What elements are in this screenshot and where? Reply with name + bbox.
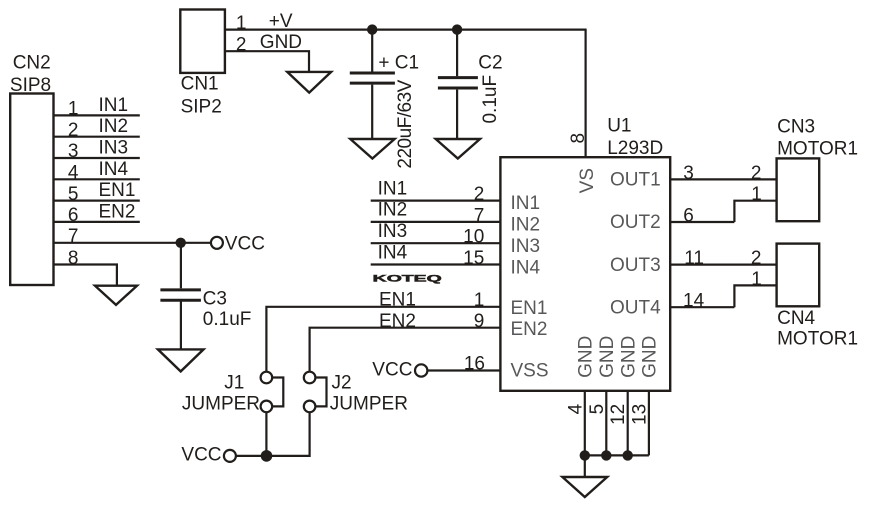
svg-text:4: 4 (565, 403, 586, 414)
svg-text:7: 7 (474, 205, 485, 226)
junction dot pin7/C3 (176, 238, 186, 248)
svg-text:IN4: IN4 (99, 159, 129, 180)
svg-text:2: 2 (751, 163, 762, 184)
svg-text:4: 4 (68, 163, 79, 184)
svg-text:6: 6 (683, 206, 694, 227)
jumper J1 pad bottom (261, 401, 273, 413)
wire CN3 pin1 (734, 201, 776, 222)
wire OUT1 (670, 178, 777, 180)
capacitor C1 (371, 30, 373, 72)
ground symbol GND (562, 477, 607, 497)
svg-text:IN2: IN2 (99, 116, 129, 137)
wire CN2 pin 7 to VCC (54, 242, 212, 244)
jumper J1 pad top (261, 372, 273, 384)
svg-text:SIP2: SIP2 (181, 96, 222, 117)
svg-text:1: 1 (751, 184, 762, 205)
capacitor C3 (180, 243, 182, 288)
jumper J1 bracket (272, 378, 283, 407)
svg-text:JUMPER: JUMPER (330, 393, 408, 414)
svg-text:VCC: VCC (225, 233, 265, 254)
svg-text:CN3: CN3 (777, 117, 815, 138)
svg-text:0.1uF: 0.1uF (203, 309, 252, 330)
svg-text:GND: GND (260, 32, 302, 53)
wire VS drop (584, 30, 586, 158)
wire OUT3 (670, 264, 777, 266)
svg-text:6: 6 (68, 205, 79, 226)
svg-text:1: 1 (474, 290, 485, 311)
svg-text:IN4: IN4 (378, 242, 408, 263)
wire VSS (427, 369, 500, 371)
svg-text:3: 3 (683, 163, 694, 184)
svg-text:12: 12 (608, 404, 629, 425)
junction dot J1/J2 (261, 450, 273, 462)
wire OUT2 (670, 221, 734, 223)
svg-text:2: 2 (68, 120, 79, 141)
wire CN2 pin 1 (54, 114, 140, 116)
svg-text:OUT2: OUT2 (610, 212, 661, 233)
wire CN2 pin 2 (54, 136, 140, 138)
svg-text:16: 16 (464, 354, 485, 375)
connector CN1 SIP2 body (180, 10, 225, 73)
wire +V rail (225, 29, 587, 31)
svg-text:CN1: CN1 (181, 73, 219, 94)
svg-text:SIP8: SIP8 (10, 75, 51, 96)
svg-text:IN1: IN1 (378, 178, 408, 199)
svg-text:MOTOR1: MOTOR1 (777, 329, 858, 350)
svg-text:220uF/63V: 220uF/63V (395, 79, 416, 168)
svg-text:8: 8 (568, 133, 589, 144)
svg-text:EN2: EN2 (99, 201, 136, 222)
svg-text:+V: +V (269, 11, 293, 32)
wire CN2 pin 4 (54, 178, 140, 180)
svg-text:MOTOR1: MOTOR1 (777, 138, 858, 159)
svg-text:EN1: EN1 (99, 180, 136, 201)
VCC pad circle VSS (415, 364, 427, 376)
svg-text:JUMPER: JUMPER (182, 393, 260, 414)
wire GND bus (585, 454, 649, 456)
svg-text:7: 7 (68, 226, 79, 247)
svg-text:IN1: IN1 (99, 95, 129, 116)
svg-text:5: 5 (68, 184, 79, 205)
wire CN2 pin 5 (54, 200, 140, 202)
svg-text:IN1: IN1 (511, 193, 541, 214)
wire CN2 pin 6 (54, 221, 140, 223)
svg-text:EN2: EN2 (379, 311, 416, 332)
svg-text:EN1: EN1 (379, 290, 416, 311)
wire GND pin 5 (605, 391, 607, 456)
svg-text:IN2: IN2 (378, 200, 408, 221)
svg-text:8: 8 (68, 248, 79, 269)
jumper J2 bracket (315, 378, 326, 407)
svg-text:OUT3: OUT3 (610, 255, 661, 276)
svg-text:15: 15 (463, 248, 484, 269)
wire GND pin 4 (584, 391, 586, 456)
svg-text:C2: C2 (478, 52, 502, 73)
wire CN2 pin 8 to ground (54, 265, 117, 286)
svg-text:1: 1 (751, 269, 762, 290)
wire J1 bottom to VCC (265, 412, 267, 456)
svg-text:J1: J1 (224, 373, 244, 394)
svg-text:2: 2 (474, 184, 485, 205)
wire IN4 (371, 263, 501, 265)
wire J2 bottom to junction (266, 412, 309, 456)
connector CN3 body (777, 158, 820, 221)
wire IN3 (371, 242, 501, 244)
svg-text:IN3: IN3 (511, 236, 541, 257)
svg-text:CN4: CN4 (777, 308, 815, 329)
IC U1 body (500, 157, 670, 391)
wire CN2 pin 3 (54, 157, 140, 159)
ground symbol C1 (350, 139, 394, 159)
svg-text:L293D: L293D (607, 138, 663, 159)
svg-text:VS: VS (577, 168, 598, 193)
svg-text:IN3: IN3 (378, 221, 408, 242)
svg-text:KOTEQ: KOTEQ (373, 273, 442, 284)
svg-text:IN2: IN2 (511, 215, 541, 236)
svg-text:IN4: IN4 (511, 258, 541, 279)
junction dot gnd 3 (623, 450, 633, 460)
svg-text:OUT4: OUT4 (610, 297, 661, 318)
junction dot C1 (367, 24, 377, 34)
svg-text:CN2: CN2 (13, 53, 51, 74)
svg-text:U1: U1 (607, 115, 631, 136)
VCC pad circle bottom (224, 450, 236, 462)
connector CN2 SIP8 body (10, 94, 53, 286)
svg-text:IN3: IN3 (99, 138, 129, 159)
junction dot gnd 2 (601, 450, 611, 460)
svg-text:J2: J2 (332, 373, 352, 394)
wire to ground (584, 455, 586, 477)
svg-text:VSS: VSS (511, 360, 549, 381)
svg-text:2: 2 (236, 34, 247, 55)
svg-text:C3: C3 (203, 288, 227, 309)
svg-text:OUT1: OUT1 (610, 170, 661, 191)
wire GND pin 12 (627, 391, 629, 456)
svg-text:0.1uF: 0.1uF (480, 75, 501, 124)
svg-text:GND: GND (618, 336, 639, 378)
svg-text:5: 5 (587, 404, 608, 415)
capacitor C2 (456, 30, 458, 77)
svg-text:GND: GND (575, 336, 596, 378)
ground symbol CN1 (287, 72, 331, 93)
wire CN1 pin 2 to ground (225, 51, 309, 72)
junction dot gnd 1 (580, 450, 590, 460)
svg-text:9: 9 (474, 311, 485, 332)
svg-text:GND: GND (639, 336, 660, 378)
connector CN4 body (777, 244, 820, 307)
svg-text:1: 1 (236, 13, 247, 34)
svg-text:EN2: EN2 (511, 319, 548, 340)
svg-text:11: 11 (684, 248, 704, 269)
svg-text:GND: GND (597, 336, 618, 378)
svg-text:+ C1: + C1 (378, 52, 419, 73)
wire IN1 (371, 200, 501, 202)
wire EN2 (310, 328, 501, 372)
svg-text:VCC: VCC (181, 445, 221, 466)
svg-text:10: 10 (463, 227, 484, 248)
VCC pad circle (211, 237, 223, 249)
ground symbol C2 (436, 139, 480, 159)
svg-text:3: 3 (68, 141, 79, 162)
svg-text:1: 1 (68, 99, 79, 120)
svg-text:13: 13 (629, 404, 650, 425)
ground symbol C3 (158, 349, 204, 371)
svg-text:VCC: VCC (372, 359, 412, 380)
svg-text:14: 14 (683, 291, 705, 312)
wire VCC feed (236, 455, 267, 457)
ground symbol CN2 pin8 (95, 286, 137, 305)
wire CN4 pin1 (734, 285, 776, 307)
svg-text:EN1: EN1 (511, 298, 548, 319)
wire EN1 (266, 307, 500, 372)
jumper J2 pad top (304, 372, 316, 384)
jumper J2 pad bottom (304, 401, 316, 413)
svg-text:2: 2 (751, 248, 762, 269)
wire IN2 (371, 221, 501, 223)
wire OUT4 (670, 306, 734, 308)
wire GND pin 13 (648, 391, 650, 456)
junction dot C2 (452, 24, 462, 34)
